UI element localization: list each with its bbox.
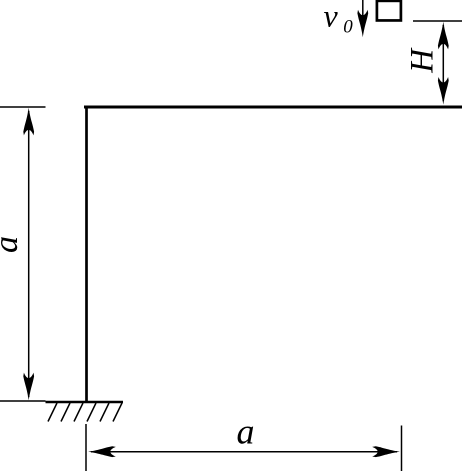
ground line [46,401,124,404]
v0 arrow (downward initial velocity arrow) [357,0,368,37]
svg-text:a: a [0,236,25,253]
beam (table top, thick horizontal line) [84,106,462,109]
H reference line (drop height datum) [413,20,462,22]
H dimension arrow (double-headed vertical) [438,22,449,105]
top-left tick line [0,106,46,108]
svg-text:a: a [237,411,255,451]
post (table leg, thick vertical line) [85,106,88,403]
block (small square) [377,1,401,21]
ground hatching [48,403,122,422]
bottom dimension arrow a (double-headed horizontal) [88,446,400,457]
left dimension arrow a (double-headed vertical) [23,108,34,400]
bottom-left tick line [0,400,46,402]
svg-text:H: H [404,47,440,74]
bottom-right extension line [401,426,403,471]
bottom-left extension line [85,424,87,471]
svg-text:v: v [324,0,339,33]
svg-text:0: 0 [343,16,353,37]
